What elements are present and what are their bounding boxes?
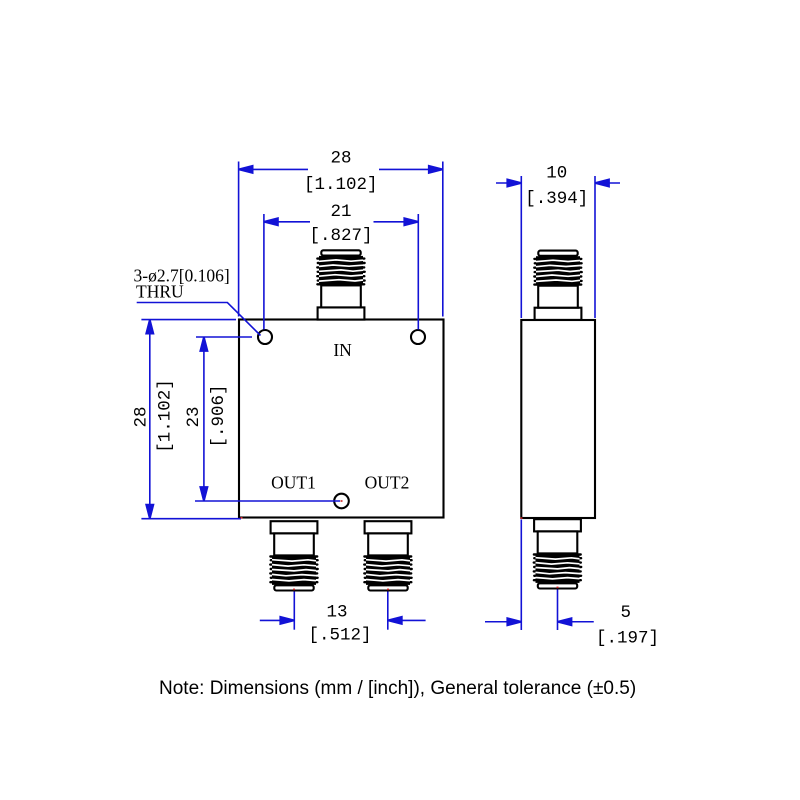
leader line to top-left hole [137, 303, 261, 336]
arrow right of 13 (pointing left) [388, 617, 402, 624]
arrow left of 5 (pointing right) [507, 618, 521, 625]
mounting hole bottom-center [334, 494, 349, 509]
dimension line 23 vertical [203, 337, 205, 501]
arrow top of left 28 [146, 320, 153, 334]
arrow right of 28 top [429, 166, 443, 173]
svg-text:Note: Dimensions (mm / [inch]): Note: Dimensions (mm / [inch]), General … [159, 678, 636, 699]
connector J2 OUT1 (bottom-left, front view) [270, 521, 317, 590]
extension line right of 28 top [442, 162, 444, 317]
connector bottom (side view) [534, 519, 581, 588]
connector J3 OUT2 (bottom-right, front view) [364, 521, 411, 590]
arrow top of 23 [200, 337, 207, 351]
dimension line 10 right tail [595, 182, 620, 184]
body outline side view [521, 320, 595, 518]
extension line bottom of left 28 [141, 518, 241, 520]
dimension line 5 left tail [485, 621, 507, 623]
svg-text:21: 21 [330, 202, 351, 222]
dimension line 28 top left segment [239, 168, 308, 170]
dimension line 28 top right segment [379, 168, 443, 170]
arrow bottom of 23 [200, 487, 207, 501]
extension line left of 10 [520, 176, 522, 318]
extension line bottom of 23 [195, 500, 340, 502]
red defpoint mark side body bottom-left corner [521, 517, 523, 519]
centerline OUT1 connector [293, 592, 295, 630]
extension line top of left 28 [141, 319, 236, 321]
svg-text:23: 23 [184, 406, 204, 427]
extension line left of 21 [263, 214, 265, 330]
extension line top of 23 [196, 336, 252, 338]
mounting hole top-right [411, 330, 425, 344]
dimension line 13 left tail [260, 619, 295, 621]
centerline OUT2 connector [387, 592, 389, 630]
svg-text:5: 5 [621, 603, 632, 623]
connector J1 IN (top, front view) [317, 250, 364, 319]
red defpoint mark bottom hole center [341, 500, 343, 502]
svg-text:[1.102]: [1.102] [156, 379, 176, 453]
arrow left of 10 (pointing right) [507, 179, 521, 186]
red defpoint mark OUT2 connector tip [387, 589, 389, 591]
extension line left of 28 top [238, 162, 240, 317]
extension line left of 5 [520, 520, 522, 631]
svg-text:OUT2: OUT2 [365, 473, 410, 493]
dimension line 13 right tail [388, 619, 426, 621]
mounting hole top-left [258, 330, 272, 344]
svg-text:[.394]: [.394] [525, 189, 588, 209]
centerline side bottom connector [557, 590, 559, 631]
svg-text:[.512]: [.512] [308, 626, 371, 646]
dimension line 21 right segment [374, 221, 419, 223]
svg-text:OUT1: OUT1 [271, 473, 316, 493]
arrow right of 21 [404, 218, 418, 225]
svg-text:[1.102]: [1.102] [304, 175, 378, 195]
body outline front view [239, 320, 444, 518]
dimension line 5 right tail [572, 621, 594, 623]
svg-text:28: 28 [132, 406, 152, 427]
svg-text:[.197]: [.197] [596, 629, 659, 649]
arrow left of 28 top [239, 166, 253, 173]
svg-text:28: 28 [330, 149, 351, 169]
extension line right of 21 [417, 214, 419, 330]
svg-text:THRU: THRU [136, 282, 184, 302]
dimension line left 28 vertical [149, 320, 151, 519]
svg-text:[.906]: [.906] [209, 384, 229, 447]
arrow left of 13 (pointing right) [280, 617, 294, 624]
red defpoint mark OUT1 connector tip [293, 589, 295, 591]
red defpoint mark side connector tip [557, 587, 559, 589]
arrow left of 21 [264, 218, 278, 225]
svg-text:10: 10 [546, 164, 567, 184]
connector top (side view) [534, 251, 581, 320]
dimension line 21 left segment [264, 221, 310, 223]
extension line right of 10 [594, 176, 596, 318]
arrow right of 5 (pointing left) [558, 618, 572, 625]
arrow bottom of left 28 [146, 505, 153, 519]
svg-text:13: 13 [326, 603, 347, 623]
red defpoint mark front body bottom-left corner [241, 517, 243, 519]
svg-text:[.827]: [.827] [309, 226, 372, 246]
dimension line 10 left tail [496, 182, 521, 184]
svg-text:IN: IN [333, 340, 352, 360]
arrow right of 10 (pointing left) [595, 179, 609, 186]
